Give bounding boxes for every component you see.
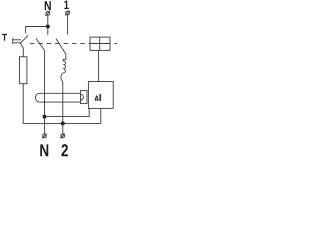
wire right conductor lower [62, 82, 64, 134]
toroid winding box [81, 91, 88, 104]
label delta [95, 96, 99, 101]
terminal N bottom [42, 134, 47, 139]
label T [2, 34, 7, 41]
label I [100, 94, 101, 101]
node N top label [45, 1, 51, 10]
switch test contact blade [20, 35, 28, 57]
resistor R test [20, 57, 27, 84]
mechanism dashed link right stub [114, 43, 117, 45]
node dot right conductor [61, 121, 65, 125]
test button actuator T [13, 38, 21, 44]
wire horizontal to test branch [26, 27, 48, 34]
label 2 bottom [61, 144, 68, 156]
terminal 1 top [65, 11, 70, 16]
label N bottom [40, 144, 48, 156]
mechanism dashed link [30, 43, 90, 45]
toroid winding semicircle [81, 94, 84, 100]
wire pole1 stub [67, 15, 69, 35]
terminal 2 bottom [60, 134, 65, 139]
node junction dot [46, 25, 50, 29]
coil squiggle on right conductor [61, 54, 66, 82]
wire N terminal to junction [47, 15, 49, 26]
switch pole N blade [36, 38, 45, 50]
toroid core [35, 93, 80, 102]
node dot left conductor [43, 115, 47, 119]
relay deltaI box [88, 82, 113, 109]
wire resistor down [23, 84, 63, 124]
wire left pole stub [47, 27, 49, 35]
wire left conductor [44, 51, 46, 135]
switch pole 1 blade [56, 39, 66, 55]
terminal N top [45, 11, 50, 16]
node 1 top label [64, 1, 68, 9]
wire relay right supply [63, 108, 101, 123]
wire mech box to relay [98, 50, 100, 81]
wire relay left supply [45, 108, 90, 116]
mechanism box [90, 37, 110, 50]
